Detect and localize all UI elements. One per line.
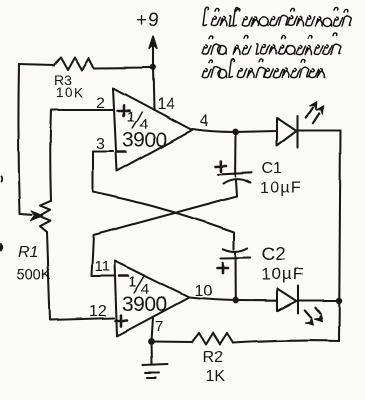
svg-text:7: 7 <box>155 318 163 335</box>
op-amp U2 (1/4 3900 bottom) <box>115 261 190 336</box>
capacitor C1 <box>218 132 252 196</box>
svg-text:11: 11 <box>94 258 110 275</box>
potentiometer R1 <box>39 201 51 232</box>
capacitor C2 plus mark <box>217 263 228 273</box>
Thai caption line 1 <box>203 7 351 26</box>
svg-text:C2: C2 <box>262 243 286 264</box>
resistor R2 <box>192 333 233 345</box>
power arrow to +9 <box>149 36 157 66</box>
wire pin 7 stub <box>152 317 154 342</box>
resistor R3 <box>54 58 94 71</box>
op-amp U1 plus input mark <box>118 105 130 116</box>
op-amp U2 plus input mark <box>116 315 128 326</box>
left margin scan mark B <box>1 244 3 251</box>
svg-text:3: 3 <box>96 136 105 153</box>
svg-text:14: 14 <box>157 96 175 113</box>
LED D1 <box>277 116 298 148</box>
wire R3 to +9 junction <box>94 66 153 69</box>
capacitor C1 plus mark <box>216 161 227 172</box>
svg-text:R2: R2 <box>203 349 224 366</box>
LED D2 <box>277 286 298 313</box>
Thai caption line 3 <box>202 59 324 78</box>
svg-text:2: 2 <box>96 95 105 112</box>
LED D2 light arrows <box>305 307 323 325</box>
svg-text:4: 4 <box>200 113 209 130</box>
svg-text:3900: 3900 <box>122 293 167 316</box>
wire LED1 to right rail <box>298 129 341 131</box>
left margin scan mark A <box>0 177 3 182</box>
svg-text:10µF: 10µF <box>260 180 302 197</box>
LED D1 light arrows <box>306 102 324 124</box>
junction LED2 right rail node <box>336 297 342 303</box>
svg-text:1K: 1K <box>206 368 226 385</box>
svg-text:9: 9 <box>148 10 159 31</box>
svg-text:3900: 3900 <box>122 129 167 152</box>
svg-text:+: + <box>136 10 147 31</box>
junction C1 top node <box>233 129 240 136</box>
svg-text:10K: 10K <box>56 85 85 100</box>
wire R1 wiper arrow <box>20 211 43 221</box>
wire pin 3 stub <box>93 152 113 193</box>
wire U1 output to LED1 <box>192 129 276 132</box>
junction ground node <box>148 338 155 345</box>
wire top rail with R3 <box>19 65 54 66</box>
wire left rail <box>18 65 20 214</box>
op-amp U2 minus input mark <box>119 275 128 278</box>
wire cross diagonal C1 to pin 11 <box>91 196 237 276</box>
svg-text:12: 12 <box>89 303 107 320</box>
ground <box>143 342 168 378</box>
Thai caption line 2 <box>202 32 341 54</box>
svg-text:C1: C1 <box>262 160 283 177</box>
op-amp U1 (1/4 3900 top) <box>113 88 192 171</box>
wire ground junction to R2 <box>152 340 193 343</box>
wire pin 14 from +9 junction <box>153 67 154 110</box>
op-amp U1 minus input mark <box>117 151 126 154</box>
wire R2 to right rail <box>233 341 339 343</box>
junction C2 bottom node <box>232 297 239 304</box>
wire LED2 to right rail <box>298 299 339 301</box>
junction +9 node <box>150 64 156 70</box>
svg-text:R1: R1 <box>18 245 38 262</box>
wire cross diagonal pin3 to C2 <box>93 192 234 249</box>
wire right rail <box>339 131 341 342</box>
capacitor C2 <box>221 248 251 300</box>
svg-text:10µF: 10µF <box>261 265 304 284</box>
wire pot bottom down to pin 12 <box>47 232 114 320</box>
svg-text:500K: 500K <box>17 268 51 284</box>
wire pot top to pin 2 <box>50 110 113 201</box>
node +9 supply label <box>136 10 159 31</box>
wire U2 output to LED2 <box>189 298 276 301</box>
